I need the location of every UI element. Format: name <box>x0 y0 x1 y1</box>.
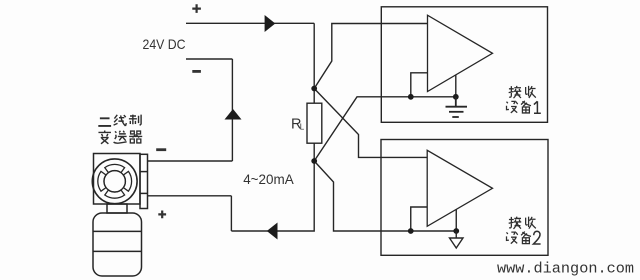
arrow up on - supply drop <box>225 109 242 120</box>
label - (supply) <box>192 70 201 73</box>
transmitter head circle <box>92 159 137 204</box>
wire return right segment to device2 common <box>314 161 456 231</box>
receiving device 1 box <box>381 7 547 123</box>
label - (transmitter) <box>156 148 166 151</box>
wire transmitter upper terminal <box>148 160 233 162</box>
wire + supply horizontal <box>186 22 314 24</box>
svg-text:24V DC: 24V DC <box>143 36 186 52</box>
label 二线制 <box>98 118 111 126</box>
arrow right on + supply <box>265 15 276 32</box>
wire spine R_L bottom lead <box>313 143 315 161</box>
transmitter sector N <box>105 164 125 172</box>
label 变送器 <box>98 130 110 143</box>
transmitter inner hub circle <box>104 171 125 192</box>
op-amp U2 <box>427 150 492 226</box>
wire A to device2 input <box>314 89 427 158</box>
svg-text:www.diangon.com: www.diangon.com <box>497 260 634 278</box>
transmitter body <box>93 213 142 276</box>
wire - supply vertical down to transmitter <box>231 59 233 161</box>
op-amp U1 <box>428 15 493 91</box>
op-amp U2 inverting stub <box>411 207 427 231</box>
wire spine top <box>313 23 315 103</box>
transmitter sector S <box>105 190 125 198</box>
wire transmitter lower terminal <box>148 195 232 197</box>
resistor R_L <box>307 103 322 143</box>
wire - supply horizontal <box>186 58 232 60</box>
label + (supply) <box>192 4 201 13</box>
node dot device2 stub <box>408 228 414 234</box>
label 接收 (device1) <box>509 86 522 98</box>
transmitter terminal block <box>140 154 148 208</box>
svg-text:L: L <box>300 122 305 131</box>
arrow left on return wire <box>267 223 278 240</box>
label 设备1 <box>507 101 518 113</box>
two-wire transmitter <box>92 154 147 277</box>
chassis ground device2 (open triangle) <box>450 231 464 248</box>
label 接收 (device2) <box>509 217 522 229</box>
label + (transmitter) <box>158 211 166 219</box>
transmitter sector E <box>123 171 131 191</box>
transmitter housing <box>94 154 141 205</box>
earth ground device1 <box>446 97 468 117</box>
transmitter sector W <box>98 171 106 191</box>
receiving device 2 box <box>381 140 548 256</box>
op-amp U1 inverting stub <box>411 73 428 97</box>
svg-text:4~20mA: 4~20mA <box>243 172 294 188</box>
wire lower drop <box>230 196 232 231</box>
op-amp U2 output-to-common vertical <box>455 209 457 231</box>
op-amp U1 output-to-common vertical <box>455 75 457 97</box>
wire return left segment <box>231 161 314 231</box>
transmitter neck <box>107 204 127 213</box>
wire C to device1 input <box>314 24 427 89</box>
node dot device2 ground <box>453 228 459 234</box>
node dot device1 ground <box>453 94 459 100</box>
wire B to device1 common <box>314 97 456 161</box>
node junction bottom of R_L <box>311 158 317 164</box>
node junction top of R_L <box>311 86 317 92</box>
label 设备2 <box>507 232 518 244</box>
node dot device1 stub <box>408 94 414 100</box>
